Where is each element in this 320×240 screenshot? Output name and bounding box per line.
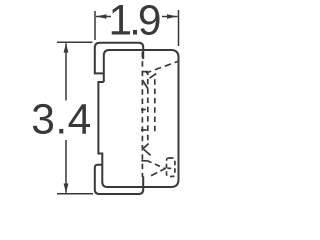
arrow left (1.9 dimension): [96, 14, 111, 19]
body outline: [98, 50, 178, 187]
hidden dashed vertical line V2: [147, 72, 149, 144]
hidden dashed jog H2: [141, 129, 147, 131]
hidden dashed bend B (down-right): [144, 149, 151, 155]
extension line right of 1.9 dimension: [178, 10, 180, 46]
extension line left of 1.9 dimension: [94, 11, 96, 40]
hidden dashed die outline (rounded square): [167, 158, 175, 177]
svg-text:1.9: 1.9: [108, 0, 159, 45]
extension line top of 3.4 dimension: [57, 41, 93, 43]
bottom lead (terminal) outline: [95, 165, 143, 194]
hidden dashed diagonal D3 to top-right corner: [146, 62, 178, 74]
hidden dashed vertical line V3: [154, 74, 156, 132]
top lead (terminal) outline: [95, 43, 143, 74]
arrow right (1.9 dimension): [162, 14, 178, 19]
hidden dashed jog H1: [141, 109, 146, 111]
dimension line 3.4 lower part with down arrow: [64, 140, 69, 193]
svg-text:3.4: 3.4: [31, 97, 92, 144]
hidden dashed bend A (V2 jogs left): [143, 144, 148, 149]
hidden tiny dash inside die: [168, 167, 172, 169]
extension line bottom of 3.4 dimension: [57, 193, 93, 195]
hidden dashed horizontal at lower zigzag: [141, 160, 147, 162]
hidden dashed vertical line V1 (inner lead edge): [141, 52, 143, 177]
hidden dashed zigzag diagonal between V1 and V2: [142, 80, 147, 89]
hidden dashed diagonal D5 to die: [147, 161, 164, 169]
hidden dashed jog at top of V2: [142, 71, 148, 73]
hidden dashed short diagonal D4: [150, 74, 157, 79]
hidden dashed diagonal D6 to die: [151, 168, 166, 176]
dimension line 3.4 upper part with up arrow: [64, 43, 69, 100]
